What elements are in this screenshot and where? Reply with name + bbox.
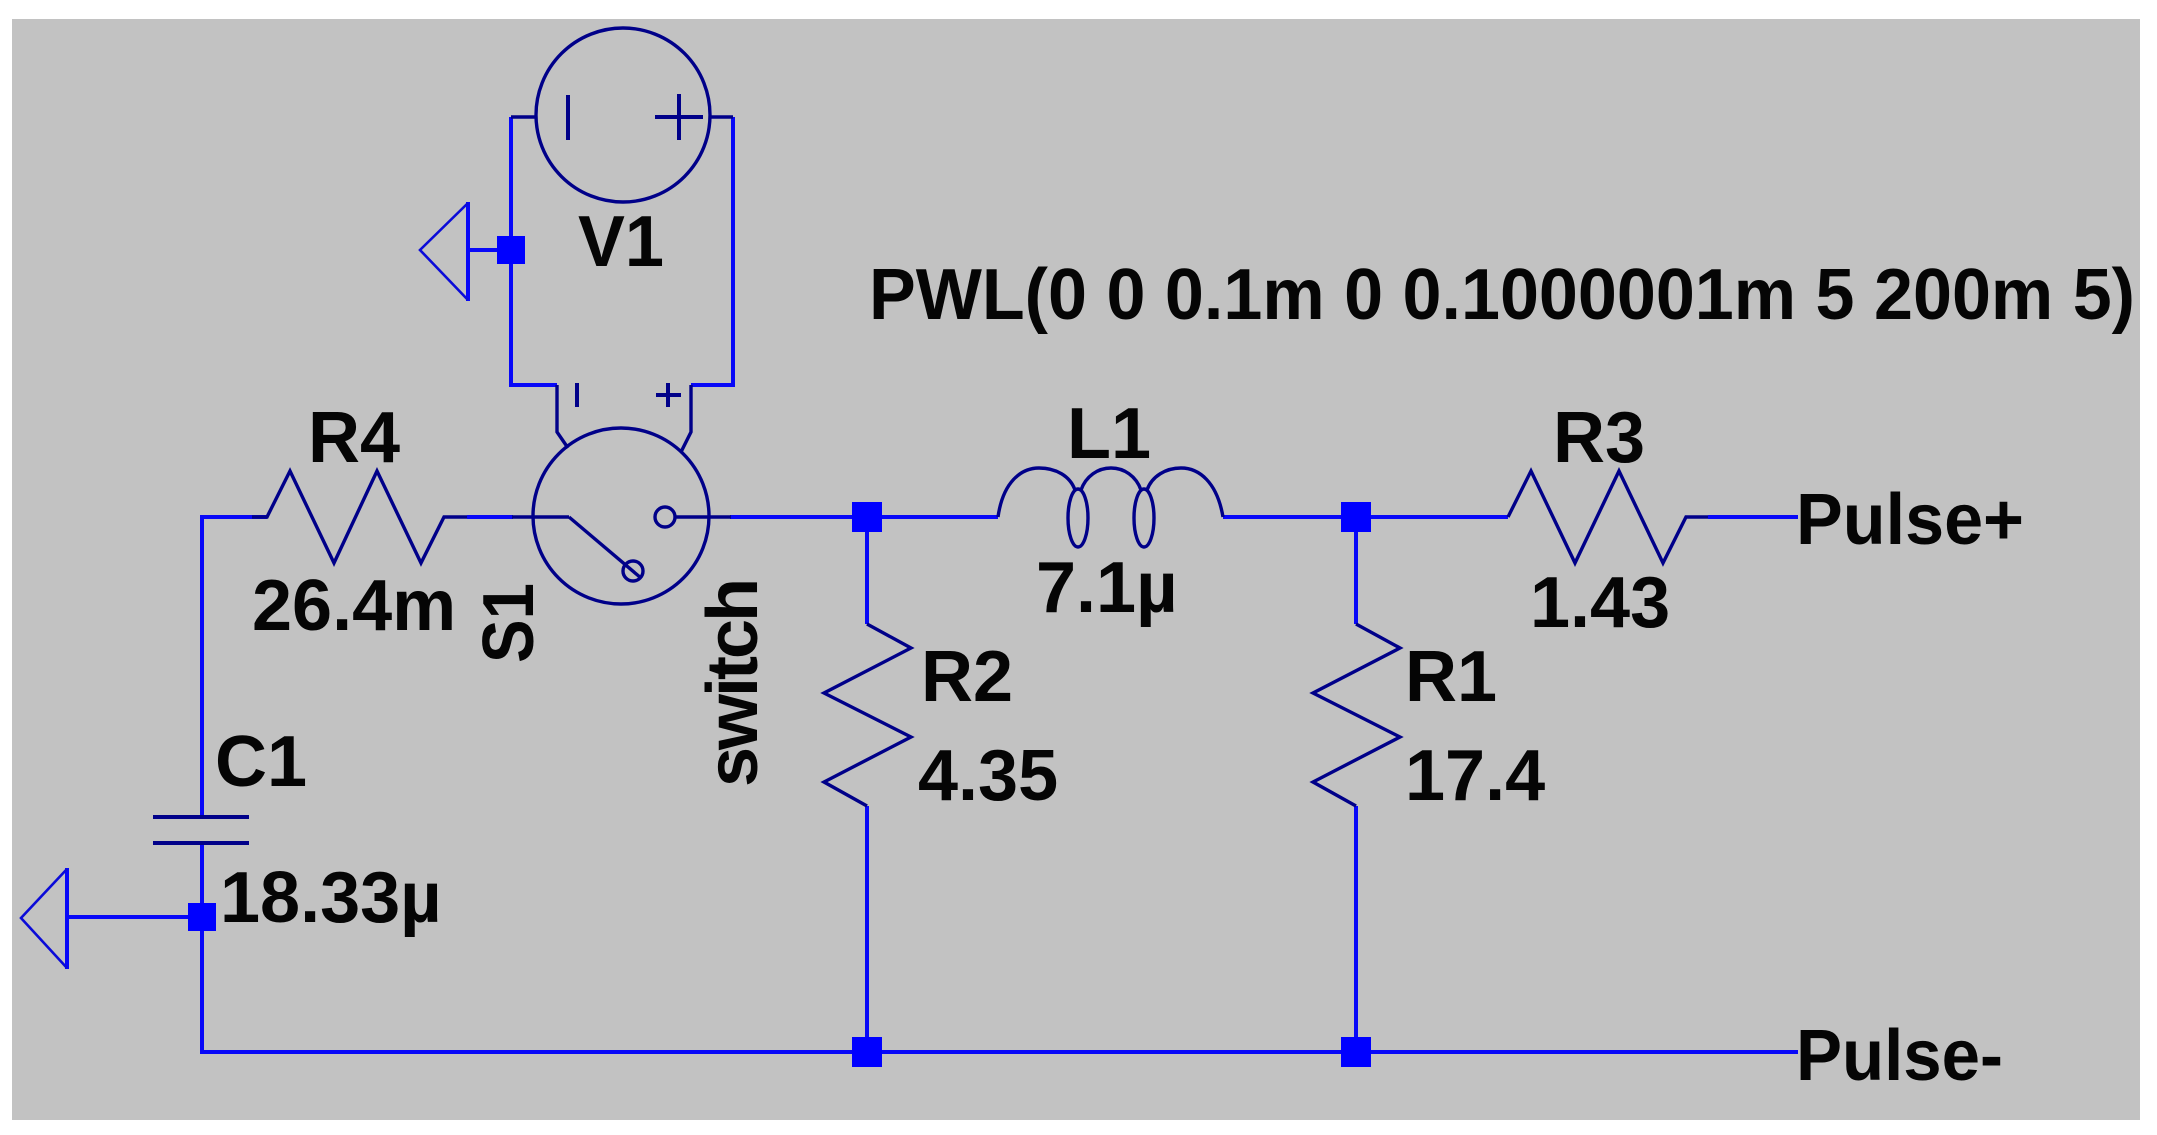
resistor R3 [1508,471,1708,563]
svg-text:C1: C1 [215,722,307,802]
node A (switch/L1/R2) [852,502,882,532]
ground G2 (left-pointing triangle near C1) [21,868,67,969]
svg-text:V1: V1 [578,202,664,282]
wire: switch to node A [730,515,998,519]
svg-text:R1: R1 [1405,637,1497,717]
V1 minus mark [566,95,570,140]
ground G1 (left-pointing triangle near V1) [420,202,468,301]
svg-text:Pulse+: Pulse+ [1796,480,2024,560]
svg-text:R3: R3 [1553,398,1645,478]
S1 left terminal [512,515,569,518]
svg-text:switch: switch [693,581,773,787]
wire: R2 bottom to rail [865,806,869,1052]
wire: V1 right vertical [691,117,733,385]
node: V1 ground node [497,236,525,264]
node: R2 bottom [852,1037,882,1067]
S1 control stubs [557,385,568,448]
wire: C1 bottom to bottom rail [200,843,204,1052]
wire: top rail left segment [202,517,267,815]
wire: gnd2 to node [67,915,202,919]
wire: R1 bottom to rail [1354,806,1358,1052]
node: C1 ground node [188,903,216,931]
svg-text:1.43: 1.43 [1530,563,1670,643]
wire: L1 to R3 [1223,515,1508,519]
wire: R4 to switch [467,515,513,519]
voltage source V1 [511,28,733,202]
svg-text:R4: R4 [308,398,400,478]
resistor R4 [252,471,467,563]
wire: bottom rail [202,1050,1798,1052]
svg-text:PWL(0 0 0.1m 0 0.1000001m 5 20: PWL(0 0 0.1m 0 0.1000001m 5 200m 5) [869,255,2135,335]
node: R1 bottom [1341,1037,1371,1067]
S1 contact arm through small circle [569,517,641,578]
V1 plus mark [655,115,703,119]
wire: gnd1 to node [468,248,511,252]
svg-text:Pulse-: Pulse- [1796,1016,2003,1096]
wire: R3 to Pulse+ [1708,515,1798,519]
svg-text:L1: L1 [1067,394,1151,474]
switch S1 (voltage-controlled switch) [512,383,731,604]
svg-text:17.4: 17.4 [1405,736,1545,816]
inductor L1 [998,468,1223,547]
svg-text:4.35: 4.35 [918,736,1058,816]
resistor R1 [1313,624,1400,806]
svg-text:26.4m: 26.4m [252,566,456,646]
node B (L1/R3/R1) [1341,502,1371,532]
S1 right contact circle [655,507,675,527]
S1 control minus mark [575,383,579,407]
S1 control plus mark [656,393,681,397]
wire: node A down to R2 [865,517,869,624]
V1 pin stubs [511,115,537,118]
capacitor C1 [153,817,249,843]
svg-text:R2: R2 [921,637,1013,717]
wire: node B down to R1 [1354,517,1358,624]
svg-text:18.33µ: 18.33µ [220,858,442,938]
svg-text:S1: S1 [469,583,549,663]
resistor R2 [824,624,911,806]
svg-text:7.1µ: 7.1µ [1036,548,1178,628]
wire: V1 left vertical [67,117,1798,1052]
